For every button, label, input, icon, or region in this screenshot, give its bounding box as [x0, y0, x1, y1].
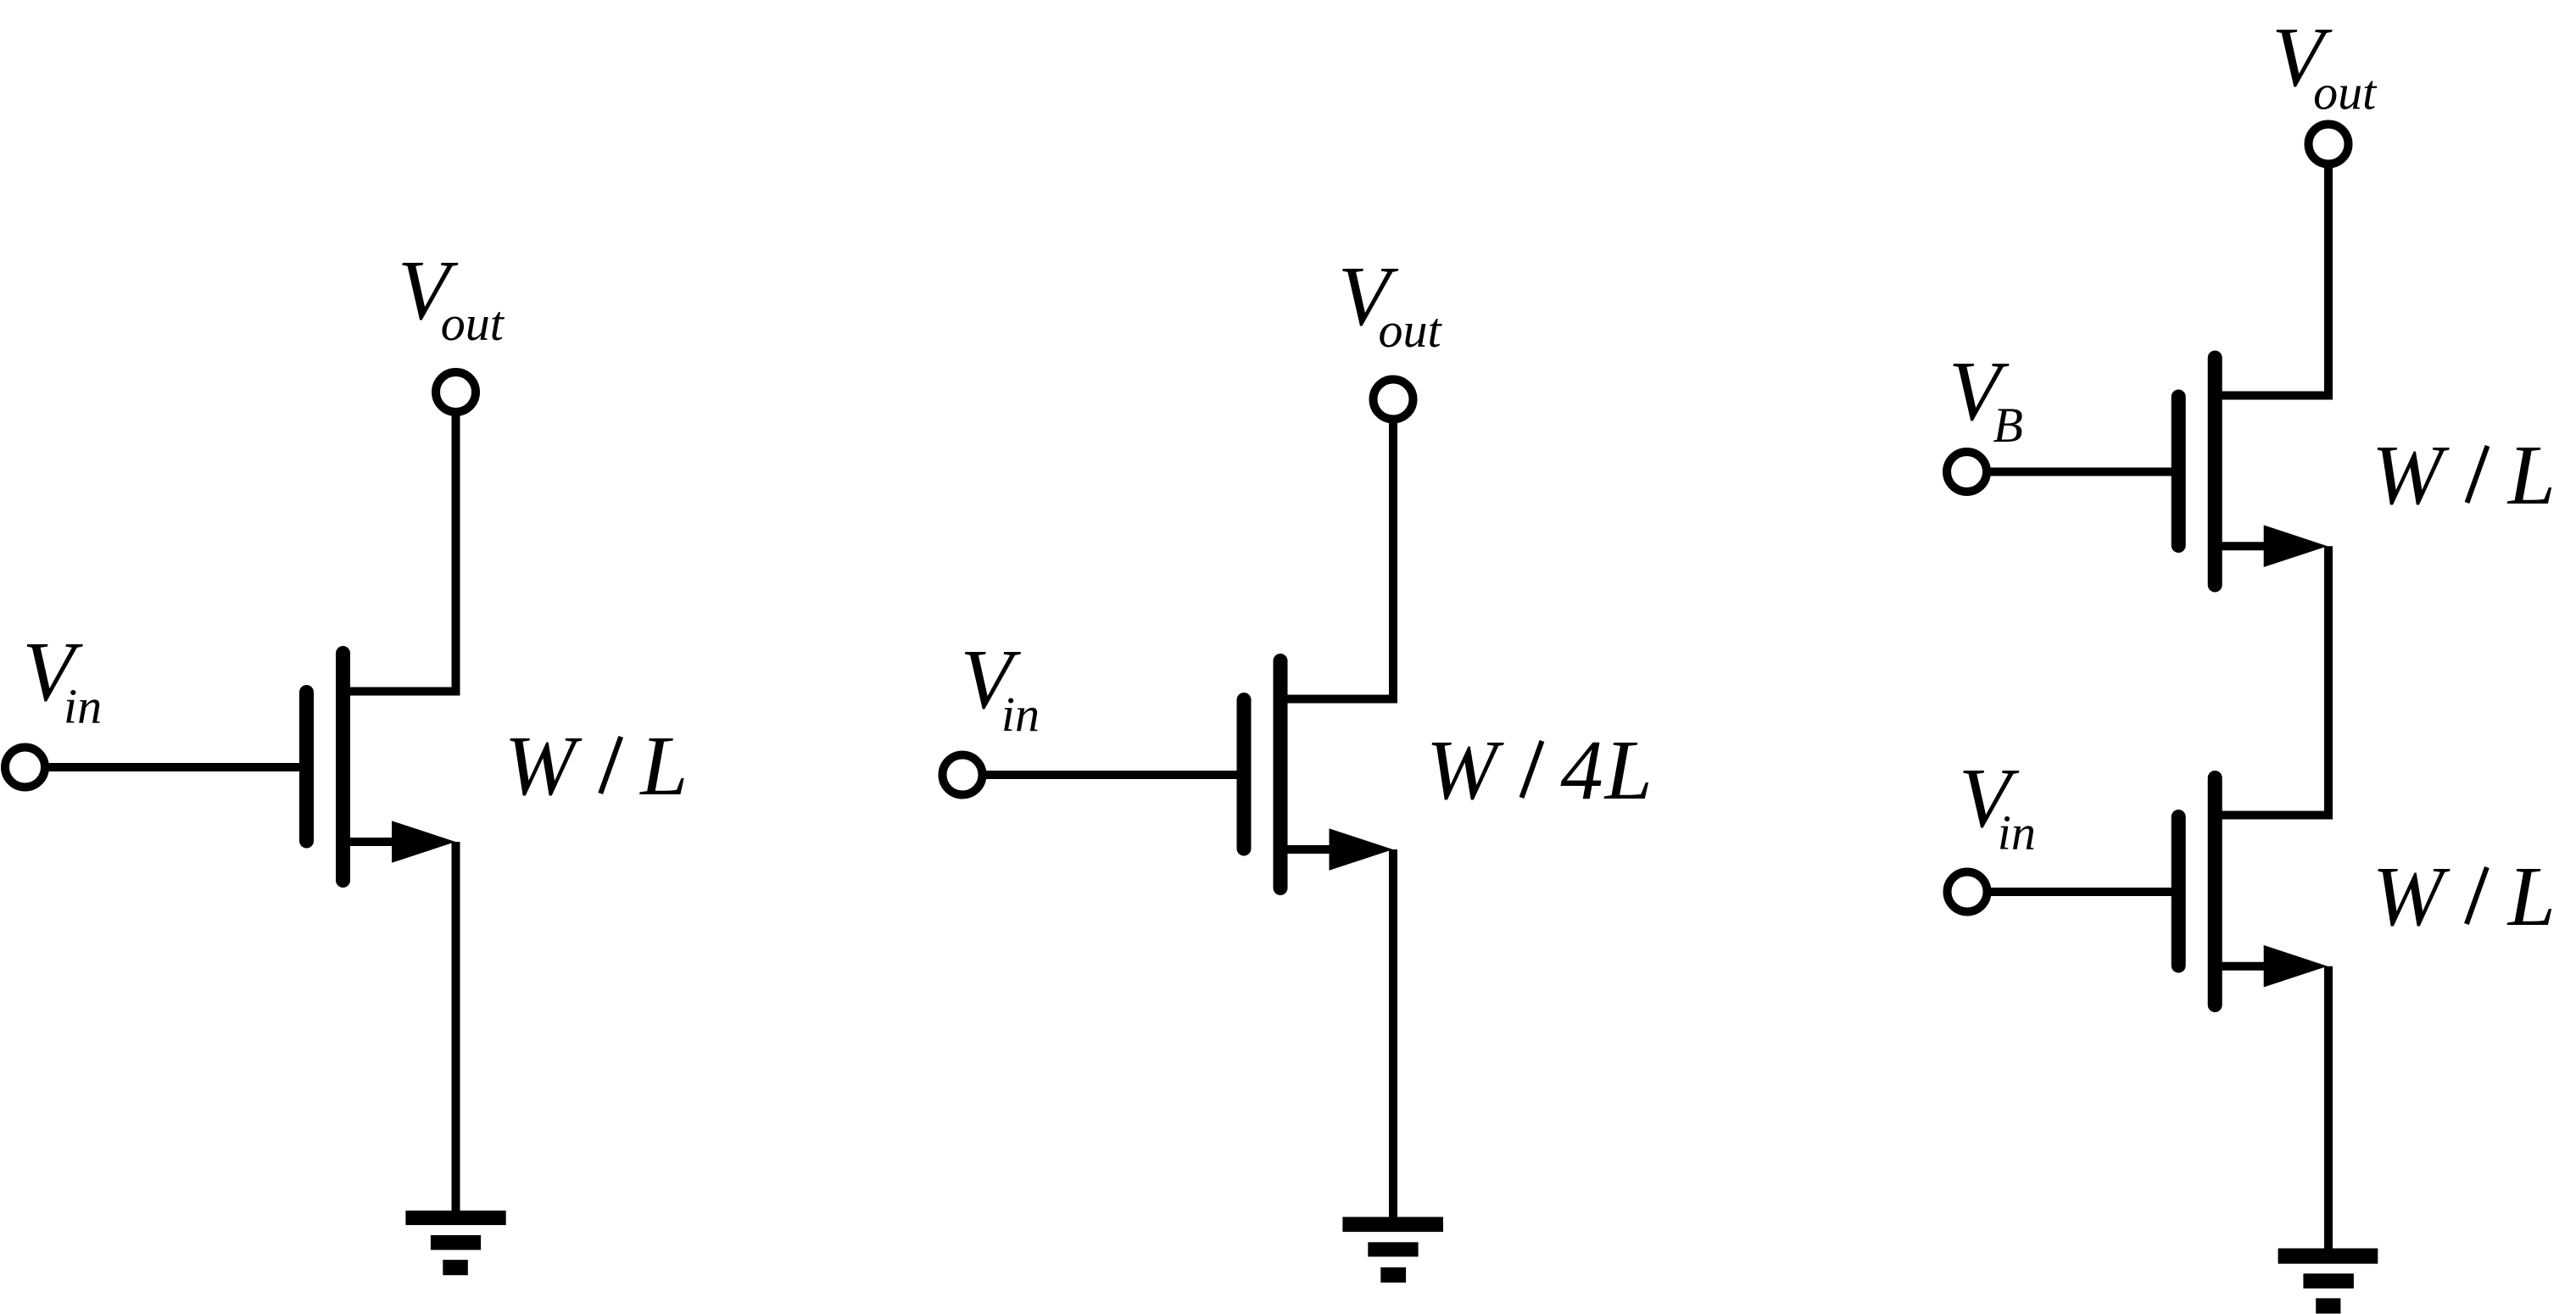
svg-text:W: W — [2372, 849, 2451, 944]
svg-text:out: out — [1379, 303, 1443, 358]
wire source M2c (horizontal stub, top transistor) — [2219, 542, 2271, 550]
terminal Vin (open circle, circuit 3) — [1948, 872, 1988, 912]
wire gate M1c (Vin to gate of bottom transistor) — [1988, 888, 2172, 896]
node Vout (label) — [398, 242, 505, 351]
transistor M1b source arrow — [1330, 828, 1393, 871]
svg-text:L: L — [638, 718, 688, 813]
wire source M1c (horizontal stub, bottom transistor) — [2219, 962, 2271, 971]
transistor M1a channel bar — [336, 654, 350, 881]
wire source M1b (horizontal stub) — [1285, 845, 1336, 854]
transistor M1b gate bar — [1237, 700, 1252, 849]
transistor M1c gate bar (bottom) — [2172, 817, 2186, 966]
transistor M1a gate bar — [299, 693, 314, 842]
svg-text:in: in — [1001, 687, 1040, 742]
node Vin (label) — [22, 624, 102, 734]
svg-text:4: 4 — [1560, 722, 1603, 817]
terminal Vin (open circle, circuit 2) — [943, 755, 983, 795]
transistor M2c channel bar (top) — [2208, 358, 2222, 585]
svg-text:L: L — [2506, 849, 2556, 944]
transistor M1a source arrow — [392, 821, 455, 863]
wire drain M2c (up to Vout) — [2219, 164, 2328, 396]
svg-text:L: L — [2506, 427, 2556, 522]
value label W / L (M2c, top) — [2372, 427, 2556, 522]
transistor M1c source arrow (bottom) — [2264, 945, 2328, 988]
value label W / L (M1a) — [505, 718, 689, 813]
transistor M1b channel bar — [1274, 661, 1288, 888]
svg-text:in: in — [64, 679, 102, 734]
terminal Vout (open circle, circuit 3) — [2309, 125, 2349, 164]
wire drain M1a (to Vout) — [347, 412, 456, 692]
node VB (label) — [1949, 343, 2023, 453]
wire source M1c (down to ground) — [2324, 966, 2333, 1253]
transistor M2c source arrow (top) — [2264, 525, 2328, 567]
svg-text:in: in — [1998, 805, 2036, 860]
node Vin (label, circuit 2) — [961, 632, 1040, 742]
wire drain M1b (to Vout) — [1285, 420, 1394, 699]
wire gate M1a (Vin to gate) — [45, 763, 300, 771]
svg-text:L: L — [1603, 722, 1653, 817]
svg-text:out: out — [441, 296, 505, 351]
transistor M2c gate bar (top) — [2172, 397, 2186, 546]
svg-text:B: B — [1993, 398, 2023, 453]
svg-text:out: out — [2313, 65, 2378, 120]
wire gate M2c (VB to gate of top transistor) — [1987, 468, 2172, 476]
value label W / L (M1c, bottom) — [2372, 849, 2556, 944]
wire source M1a (down to ground) — [452, 842, 460, 1216]
ground (circuit 1) — [405, 1211, 505, 1275]
terminal Vin (open circle) — [5, 748, 45, 788]
node Vin (label, circuit 3) — [1959, 750, 2036, 860]
value label W / 4L (M1b) — [1426, 722, 1653, 817]
ground (circuit 3) — [2278, 1249, 2378, 1314]
wire gate M1b (Vin to gate) — [983, 771, 1238, 779]
node Vout (label, circuit 3) — [2272, 9, 2378, 120]
transistor M1c channel bar (bottom) — [2208, 778, 2222, 1005]
terminal VB (open circle) — [1947, 452, 1987, 492]
ground (circuit 2) — [1342, 1217, 1443, 1283]
wire source M1a (horizontal stub) — [347, 838, 399, 846]
terminal Vout (open circle) — [436, 372, 476, 412]
svg-text:W: W — [505, 718, 583, 813]
svg-text:W: W — [2372, 427, 2450, 522]
wire source M1b (down to ground) — [1389, 849, 1397, 1223]
wire drain M1c (up to source of M2c, interstage net) — [2219, 546, 2328, 815]
terminal Vout (open circle, circuit 2) — [1374, 380, 1413, 420]
svg-text:W: W — [1426, 722, 1504, 817]
node Vout (label, circuit 2) — [1338, 248, 1443, 358]
